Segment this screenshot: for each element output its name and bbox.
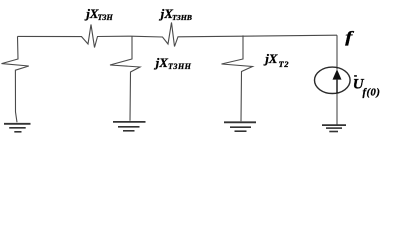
svg-text:ТЗНВ: ТЗНВ [172,13,192,22]
svg-text:ТЗНН: ТЗНН [168,62,192,71]
svg-text:f(0): f(0) [363,88,381,99]
svg-text:f: f [345,28,354,46]
svg-text:ТЗН: ТЗН [98,13,114,22]
svg-text:Т2: Т2 [279,59,290,69]
svg-text:jX: jX [263,51,278,66]
svg-text:jX: jX [154,55,169,70]
